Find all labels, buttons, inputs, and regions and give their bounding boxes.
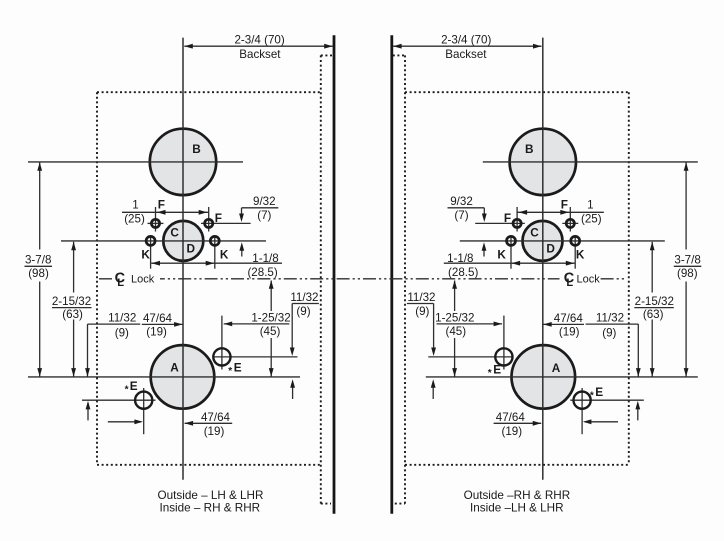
svg-text:C: C [530, 225, 539, 239]
F-hole extension lines (right) [569, 207, 571, 232]
template dotted outline top edge (right) [405, 91, 629, 93]
lower E hole crosshair (right) [581, 388, 583, 434]
backset dimension line 2-3/4 (70) (left) [184, 45, 332, 47]
svg-text:*: * [228, 366, 232, 377]
svg-text:(45): (45) [260, 325, 281, 338]
line through right F hole (right) [475, 222, 525, 224]
svg-text:3-7/8: 3-7/8 [674, 254, 700, 267]
F-hole extension lines (left) [155, 207, 157, 232]
horizontal line through hole B (left) [28, 161, 243, 163]
dimension 2-15/32 (63) vertical line (left) [73, 242, 75, 293]
dimension 11/32 (9) upper-right leader (left) [292, 303, 319, 305]
svg-text:*: * [590, 390, 594, 401]
svg-text:Backset: Backset [239, 48, 281, 61]
svg-text:E: E [595, 385, 603, 399]
svg-text:*: * [125, 384, 129, 395]
dimension 3-7/8 (98) vertical line (left) [39, 163, 41, 250]
svg-text:Outside –RH & RHR: Outside –RH & RHR [464, 489, 571, 502]
svg-text:(19): (19) [501, 425, 522, 438]
svg-text:E: E [234, 360, 242, 374]
dimension 11/32 (9) upper-right leader (right) [407, 303, 434, 305]
lock centerline label mask right [560, 270, 601, 288]
svg-text:(98): (98) [677, 267, 698, 280]
svg-text:Inside – RH & RHR: Inside – RH & RHR [159, 501, 260, 514]
svg-text:9/32: 9/32 [253, 195, 276, 208]
svg-text:47/64: 47/64 [496, 411, 526, 424]
svg-text:F: F [504, 211, 511, 225]
door edge line (left panel) [333, 35, 336, 514]
svg-text:Lock: Lock [131, 273, 155, 285]
svg-text:1-25/32: 1-25/32 [251, 311, 290, 324]
F hole right (right) [513, 219, 521, 227]
horizontal line through hole B (right) [483, 161, 698, 163]
svg-text:11/32: 11/32 [290, 291, 318, 304]
dimension 47/64 (19) bottom (left) [108, 421, 141, 423]
template dotted outline bottom edge (left) [97, 464, 321, 466]
svg-text:F: F [158, 197, 165, 211]
dimension 11/32 (9) lower-left leader (right) [586, 323, 639, 325]
svg-text:K: K [220, 247, 229, 261]
svg-text:47/64: 47/64 [554, 312, 584, 325]
svg-text:(25): (25) [581, 213, 602, 226]
backset dimension line 2-3/4 (70) (right) [393, 45, 541, 47]
F hole left (left) [151, 219, 159, 227]
horizontal line through holes C and K (left) [61, 240, 266, 242]
K-hole extension lines (left) [150, 236, 152, 269]
F-hole spacing dimension line 1 (25) (right) [517, 211, 604, 213]
template dotted fold edge at door face (right) [404, 55, 406, 503]
dimension 1-25/32 (45) vertical line (left) [270, 281, 272, 312]
svg-text:D: D [546, 241, 555, 255]
svg-text:Inside –LH & LHR: Inside –LH & LHR [470, 501, 564, 514]
svg-text:(98): (98) [28, 267, 49, 280]
dimension 2-15/32 (63) vertical line (right) [651, 242, 653, 293]
svg-text:F: F [215, 211, 222, 225]
svg-text:1-25/32: 1-25/32 [435, 311, 474, 324]
horizontal line through hole A (right) [426, 376, 698, 378]
dimension 1-25/32 (45) leader and arrow (left) [224, 323, 290, 325]
F hole left (right) [566, 219, 574, 227]
dimension 9/32 (7) leader (right) [448, 207, 485, 209]
template dotted outline top edge (left) [97, 91, 321, 93]
svg-text:B: B [525, 142, 534, 156]
svg-text:E: E [493, 362, 501, 376]
K hole right (left) [210, 236, 219, 245]
K hole left (right) [571, 236, 580, 245]
lower E hole circle (left) [135, 392, 152, 409]
leader from (25) to F hole (right) [562, 222, 578, 224]
hole B circle (left) [150, 129, 216, 195]
hole B circle (right) [510, 129, 576, 195]
svg-text:3-7/8: 3-7/8 [25, 254, 51, 267]
vertical centerline (left) [182, 38, 184, 480]
svg-text:(63): (63) [62, 308, 83, 321]
svg-text:9/32: 9/32 [450, 195, 473, 208]
dimension 3-7/8 (98) vertical line (right) [685, 163, 687, 250]
svg-text:L: L [117, 277, 124, 289]
svg-text:47/64: 47/64 [201, 411, 231, 424]
svg-text:(9): (9) [296, 305, 310, 318]
hole C/D circle (right) [523, 221, 563, 261]
svg-text:K: K [576, 247, 585, 261]
svg-text:B: B [192, 142, 201, 156]
svg-text:1-1/8: 1-1/8 [447, 252, 473, 265]
upper E hole crosshair (right) [503, 316, 505, 370]
svg-text:1: 1 [587, 199, 593, 212]
K-hole spacing dimension line 1-1/8 (28.5) (left) [151, 262, 282, 264]
svg-text:K: K [497, 247, 506, 261]
F hole right (left) [205, 219, 213, 227]
svg-text:(19): (19) [146, 326, 167, 339]
svg-text:Backset: Backset [445, 48, 487, 61]
template dotted fold tab bottom (left) [321, 503, 331, 505]
upper E hole circle (left) [213, 348, 230, 365]
svg-text:2-15/32: 2-15/32 [52, 295, 91, 308]
svg-text:K: K [141, 247, 150, 261]
template dotted fold tab bottom (right) [395, 503, 405, 505]
leader from (25) to F hole (left) [148, 222, 164, 224]
svg-text:(9): (9) [115, 326, 129, 339]
dimension 47/64 (19) bottom (right) [585, 421, 618, 423]
hole A circle (left) [151, 345, 215, 409]
svg-text:F: F [561, 197, 568, 211]
template dotted outline bottom edge (right) [405, 464, 629, 466]
lock centerline label mask left [112, 270, 160, 288]
dimension 47/64 (19) upper (right) [543, 323, 584, 325]
dimension 11/32 (9) lower-left leader (left) [88, 323, 141, 325]
lower E hole crosshair (left) [143, 388, 145, 434]
svg-text:(9): (9) [602, 326, 616, 339]
svg-text:2-3/4 (70): 2-3/4 (70) [441, 34, 491, 47]
svg-text:Lock: Lock [577, 273, 601, 285]
template dotted fold tab top (left) [321, 54, 333, 56]
hole C/D circle (left) [163, 221, 203, 261]
horizontal line through holes C and K (right) [460, 240, 665, 242]
svg-text:(19): (19) [559, 326, 580, 339]
svg-text:(28.5): (28.5) [247, 266, 277, 279]
svg-text:11/32: 11/32 [596, 312, 624, 325]
svg-text:(9): (9) [415, 305, 429, 318]
svg-text:(63): (63) [643, 308, 664, 321]
K hole right (right) [507, 236, 516, 245]
hole A circle (right) [512, 345, 576, 409]
svg-text:(28.5): (28.5) [448, 266, 478, 279]
dimension 1-25/32 (45) leader and arrow (right) [437, 323, 503, 325]
svg-text:*: * [488, 368, 492, 379]
svg-text:(7): (7) [454, 209, 468, 222]
svg-text:(45): (45) [445, 325, 466, 338]
dimension 9/32 (7) leader (left) [242, 207, 279, 209]
K hole left (left) [146, 236, 155, 245]
line through right F hole (left) [201, 222, 251, 224]
svg-text:Outside – LH & LHR: Outside – LH & LHR [158, 489, 264, 502]
svg-text:D: D [187, 241, 196, 255]
svg-text:11/32: 11/32 [108, 312, 136, 325]
F-hole spacing dimension line 1 (25) (left) [122, 211, 209, 213]
template dotted outline outer edge (right) [628, 92, 630, 465]
door edge line (right panel) [390, 35, 393, 514]
svg-text:A: A [552, 361, 561, 375]
svg-text:L: L [566, 277, 573, 289]
svg-text:11/32: 11/32 [407, 291, 435, 304]
upper E hole circle (right) [495, 348, 512, 365]
svg-text:(19): (19) [204, 425, 225, 438]
svg-text:(25): (25) [124, 213, 145, 226]
svg-text:E: E [130, 379, 138, 393]
svg-text:A: A [170, 361, 179, 375]
template dotted fold tab top (right) [393, 54, 405, 56]
K-hole spacing dimension line 1-1/8 (28.5) (right) [444, 262, 575, 264]
horizontal line through hole A (left) [28, 376, 300, 378]
K-hole extension lines (right) [574, 236, 576, 269]
svg-text:1: 1 [132, 199, 138, 212]
svg-text:(7): (7) [257, 209, 271, 222]
lower E hole circle (right) [574, 392, 591, 409]
upper E hole crosshair (left) [221, 316, 223, 370]
template dotted outline outer edge (left) [96, 92, 98, 465]
dimension 1-25/32 (45) vertical line (right) [454, 281, 456, 312]
svg-text:2-15/32: 2-15/32 [635, 295, 674, 308]
svg-text:1-1/8: 1-1/8 [252, 252, 278, 265]
svg-text:C: C [170, 225, 179, 239]
svg-text:2-3/4 (70): 2-3/4 (70) [234, 34, 284, 47]
lock centerline (dash-dot) [99, 278, 626, 280]
template dotted fold edge at door face (left) [320, 55, 322, 503]
svg-text:47/64: 47/64 [143, 312, 173, 325]
vertical centerline (right) [542, 38, 544, 480]
dimension 47/64 (19) upper (left) [142, 323, 183, 325]
